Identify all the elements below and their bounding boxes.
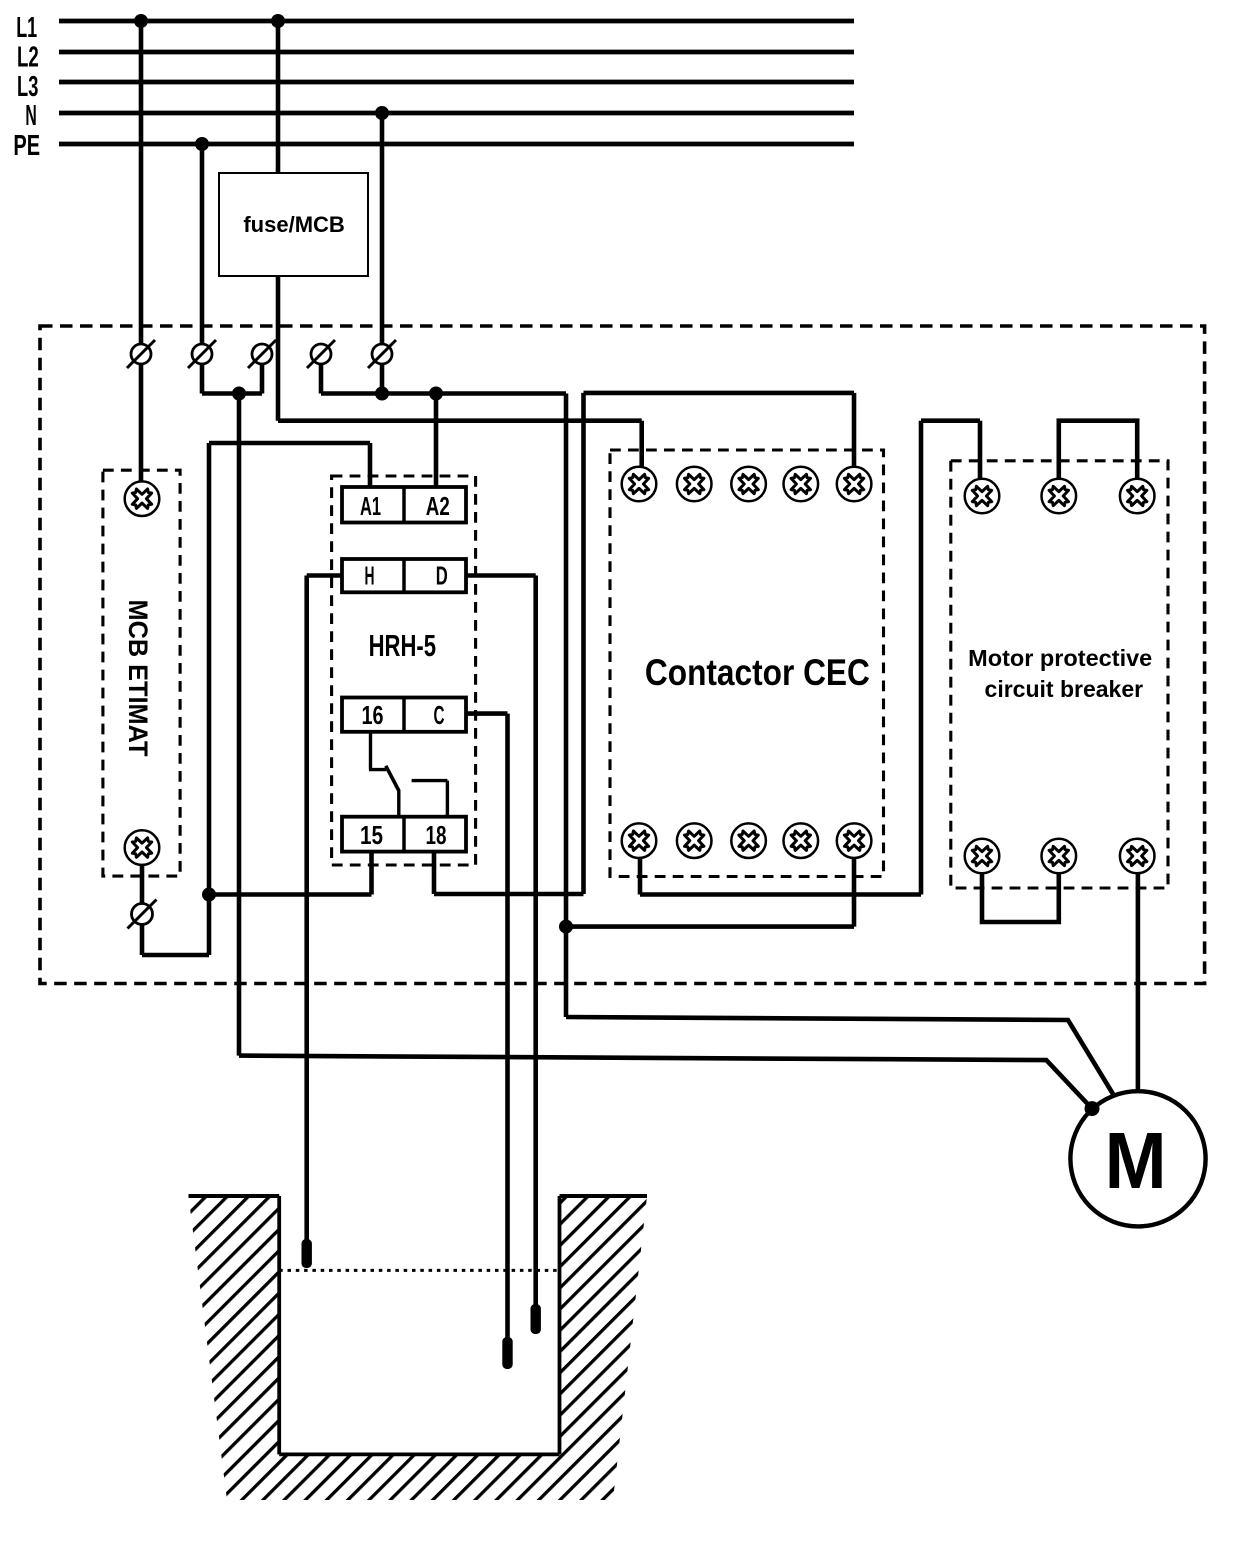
svg-text:L1: L1 — [16, 12, 37, 44]
svg-text:A2: A2 — [426, 491, 450, 521]
svg-text:HRH-5: HRH-5 — [369, 628, 436, 663]
svg-text:Motor protective: Motor protective — [968, 645, 1152, 671]
svg-text:18: 18 — [426, 820, 447, 850]
svg-text:N: N — [25, 100, 36, 132]
svg-text:Contactor CEC: Contactor CEC — [645, 652, 870, 693]
svg-text:15: 15 — [360, 820, 383, 850]
svg-text:L3: L3 — [17, 71, 38, 103]
svg-text:L2: L2 — [17, 42, 39, 74]
svg-text:C: C — [434, 700, 445, 730]
svg-text:A1: A1 — [360, 491, 381, 521]
svg-text:circuit breaker: circuit breaker — [985, 676, 1144, 702]
svg-text:H: H — [365, 561, 375, 591]
svg-text:fuse/MCB: fuse/MCB — [243, 212, 344, 237]
svg-text:M: M — [1105, 1116, 1167, 1205]
svg-text:PE: PE — [13, 130, 40, 162]
svg-text:MCB ETIMAT: MCB ETIMAT — [123, 600, 153, 757]
svg-text:D: D — [436, 561, 448, 591]
svg-text:16: 16 — [362, 700, 384, 730]
